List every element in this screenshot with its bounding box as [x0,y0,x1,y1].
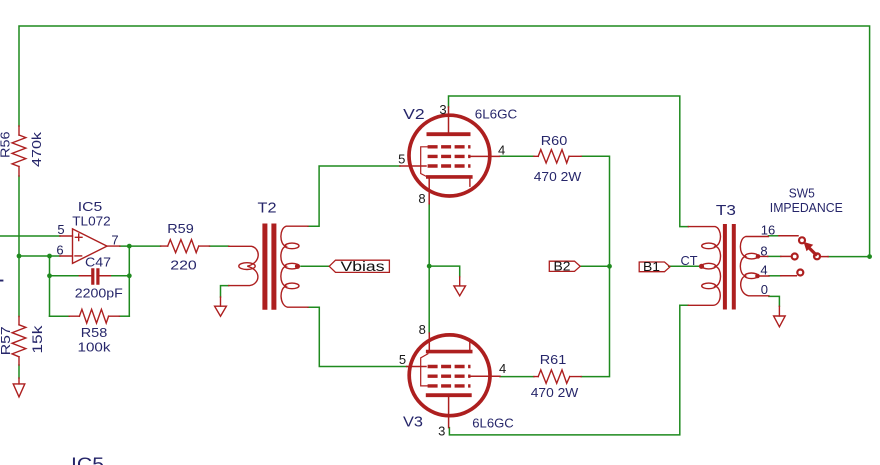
net label Vbias [329,259,389,274]
T2 primary winding [229,246,259,285]
V2 screen pin4 lead [471,155,500,157]
svg-text:6: 6 [56,243,63,258]
resistor R58 [69,309,119,323]
wire B1 to T3 center tap [669,265,699,267]
svg-text:IC5: IC5 [78,199,103,214]
wire B2 to rail [580,265,609,267]
resistor R57 [12,317,26,366]
svg-text:470 2W: 470 2W [534,169,582,184]
transformer T2 [229,226,308,307]
wire T2 secondary top to V2 pin5 [308,166,400,226]
wire T3 tap4 to SW5 [769,275,781,277]
svg-text:6L6GC: 6L6GC [475,107,518,122]
T2 core [265,226,274,307]
svg-text:R56: R56 [0,131,13,158]
T3 core [725,226,734,308]
V2 g3-cathode tie [421,147,428,177]
svg-text:4: 4 [499,361,506,376]
wire T2 primary bottom to ground [221,286,229,297]
wire V2 pin3 to T3 primary top [449,96,689,227]
resistor R56 [12,126,26,176]
T3 secondary winding [740,237,769,296]
wire op-amp pin5 input [0,235,60,237]
svg-text:5: 5 [398,152,405,167]
svg-text:3: 3 [439,102,446,117]
T3 tap nodes [756,254,761,259]
wire R60 R61 right rail [581,156,609,376]
junction node cathode ground [427,264,432,269]
ground under T2 primary [215,297,227,316]
capacitor C47 [79,270,110,283]
transformer T3 [688,226,769,308]
wire R58 row right [119,315,129,317]
svg-text:4: 4 [760,263,767,278]
T3 center tap node [699,264,704,269]
svg-text:R61: R61 [540,352,567,367]
svg-text:IC5: IC5 [71,455,104,465]
svg-text:5: 5 [57,222,64,237]
wire R58 row left [50,315,70,317]
svg-text:B2: B2 [554,259,571,274]
wire R59 to T2 [210,245,229,247]
switch SW5 [779,236,828,276]
tube V2 6L6GC [400,107,500,204]
wire cathode rail V2-V3 [428,204,430,333]
svg-text:SW5: SW5 [789,185,815,200]
wire V2 pin4 to R60 [500,155,534,157]
svg-text:R58: R58 [81,325,108,340]
junction node pin6/feedback [47,254,52,259]
wire T3 tap0 to ground [769,296,780,306]
svg-text:0: 0 [761,282,768,297]
T3 tap leads [758,256,769,276]
svg-text:16: 16 [761,223,775,238]
svg-text:6L6GC: 6L6GC [472,416,514,431]
svg-text:8: 8 [760,243,767,258]
junction node C47 right [127,273,132,278]
svg-text:3: 3 [438,423,445,438]
ground between tubes [454,277,466,296]
wire top feedback loop [19,26,870,257]
wire feedback left rail [49,256,51,316]
svg-text:8: 8 [419,322,426,337]
junction node pin6/left rail [17,254,22,259]
wire T2 secondary bottom to V3 pin5 [308,307,407,366]
resistor R60 [534,150,581,163]
svg-text:TL072: TL072 [72,214,111,229]
svg-text:100k: 100k [78,340,112,355]
wire V3 pin3 to T3 primary bottom [449,305,688,435]
svg-text:C47: C47 [85,255,111,270]
V3 g3-cathode tie [421,354,428,386]
wire SW5 pole to right rail [828,256,870,258]
op-amp IC5 [60,229,120,264]
net label B2 [549,259,580,274]
V2 grids [428,147,471,166]
ground under R57 [13,378,25,397]
svg-text:7: 7 [111,232,118,247]
T2 center tap node [295,264,300,269]
svg-text:IMPEDANCE: IMPEDANCE [770,200,843,215]
svg-text:R57: R57 [0,326,13,355]
V3 screen pin4 lead [471,375,501,377]
V3 grid pin5 lead [407,366,426,368]
wire R57 to ground [18,365,20,378]
svg-text:5: 5 [399,352,406,367]
wire T2 center tap to Vbias [301,265,329,267]
wire T3 tap16 to SW5 [768,235,779,237]
svg-text:V2: V2 [403,106,425,123]
SW5 arm [809,247,816,254]
wire C47 row left [50,275,80,277]
wire C47 row right [110,275,129,277]
net label B1 [639,259,670,274]
resistor R59 [161,240,210,253]
svg-text:470k: 470k [29,131,44,167]
junction node output [127,244,132,249]
V3 cathode [428,350,471,354]
V3 grids [428,367,471,386]
wire left rail R56-R57 [18,176,20,317]
cropped mark at left edge [0,280,3,282]
svg-text:T2: T2 [258,200,277,217]
wire op-amp pin6 row [19,255,60,257]
svg-text:B1: B1 [643,259,660,274]
T3 primary winding [688,227,720,306]
junction node C47 left [47,273,52,278]
svg-text:2200pF: 2200pF [75,285,123,300]
tube V3 6L6GC [407,333,500,428]
wire T3 tap8 to SW5 [768,255,781,257]
svg-text:V3: V3 [403,414,423,431]
wire V3 pin4 to R61 [500,376,534,378]
svg-text:220: 220 [170,258,197,273]
svg-text:CT: CT [681,253,698,268]
svg-text:R59: R59 [167,221,194,236]
svg-text:15k: 15k [30,325,45,353]
svg-text:4: 4 [498,142,505,157]
resistor R61 [534,370,581,383]
svg-text:T3: T3 [716,202,736,219]
wire feedback right rail [128,246,130,316]
junction node B2 rail [607,264,612,269]
V2 cathode [428,175,471,179]
wire op-amp output to R59 [120,245,161,247]
V3 plate [428,393,470,397]
junction node SW5 pole [867,254,872,259]
V2 plate [428,132,468,136]
ground under T3 tap0 [774,306,786,327]
svg-text:Vbias: Vbias [341,259,385,274]
svg-text:470 2W: 470 2W [531,385,579,400]
wire cathode rail to ground [429,266,460,277]
svg-text:8: 8 [418,191,425,206]
T2 secondary winding [281,226,308,307]
svg-text:R60: R60 [541,133,568,148]
V2 grid pin5 lead [400,165,426,167]
